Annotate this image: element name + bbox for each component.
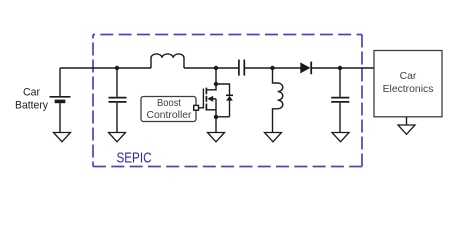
inductor L2: [273, 68, 283, 133]
wire: gate lead: [199, 107, 204, 109]
svg-text:Controller: Controller: [147, 110, 193, 121]
ground (car electronics): [398, 125, 415, 134]
capacitor C2 (coupling): [239, 60, 244, 76]
box: Car Electronics: [374, 51, 442, 117]
wire: rail to drain: [215, 68, 217, 84]
wire: source to ground: [215, 117, 217, 133]
label Car Battery: [15, 87, 48, 112]
transistor Q1 (N-MOSFET): [203, 84, 216, 117]
ground (C1): [109, 133, 126, 142]
node: drain junction: [214, 82, 218, 86]
capacitor C1 (input): [109, 68, 127, 133]
SEPIC boundary dashed box: [93, 35, 362, 167]
node: input cap junction: [115, 66, 119, 70]
wire: box ground stub: [406, 117, 408, 125]
svg-text:Battery: Battery: [15, 100, 48, 112]
pin: gate pin square: [194, 105, 199, 110]
diode D2 (body diode): [216, 84, 233, 117]
wire: top rail segments: [60, 67, 374, 69]
svg-text:Car: Car: [400, 71, 417, 82]
svg-text:Boost: Boost: [157, 98, 181, 109]
box: Boost Controller: [141, 97, 196, 122]
svg-text:Electronics: Electronics: [383, 84, 434, 95]
ground (L2): [265, 133, 282, 142]
node: source junction: [214, 115, 218, 119]
node: switch rail junction: [214, 66, 218, 70]
diode D1: [300, 62, 310, 73]
label SEPIC: [117, 151, 152, 167]
battery B1: [50, 68, 71, 133]
svg-text:Car: Car: [23, 87, 40, 99]
ground (C3): [332, 133, 349, 142]
inductor L1: [151, 54, 184, 68]
node: output cap junction: [338, 66, 342, 70]
capacitor C3 (output): [331, 68, 349, 133]
ground (Q1 source): [208, 133, 225, 142]
svg-text:SEPIC: SEPIC: [117, 151, 152, 167]
node: L2 junction: [270, 66, 274, 70]
ground (battery): [54, 133, 71, 142]
